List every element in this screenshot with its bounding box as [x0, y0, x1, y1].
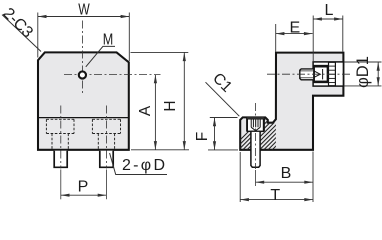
svg-text:2-C3: 2-C3 [0, 5, 36, 42]
svg-text:H: H [162, 100, 179, 111]
svg-text:B: B [281, 165, 292, 182]
svg-text:E: E [289, 19, 300, 36]
svg-text:A: A [137, 105, 154, 116]
svg-text:L: L [325, 2, 334, 19]
svg-text:2-φD: 2-φD [122, 157, 165, 174]
svg-text:T: T [270, 187, 280, 204]
svg-text:F: F [194, 132, 211, 141]
svg-text:φD1: φD1 [354, 56, 372, 88]
svg-text:C1: C1 [209, 70, 235, 96]
svg-text:M: M [103, 31, 114, 48]
svg-text:W: W [78, 2, 90, 19]
svg-text:P: P [78, 179, 89, 196]
